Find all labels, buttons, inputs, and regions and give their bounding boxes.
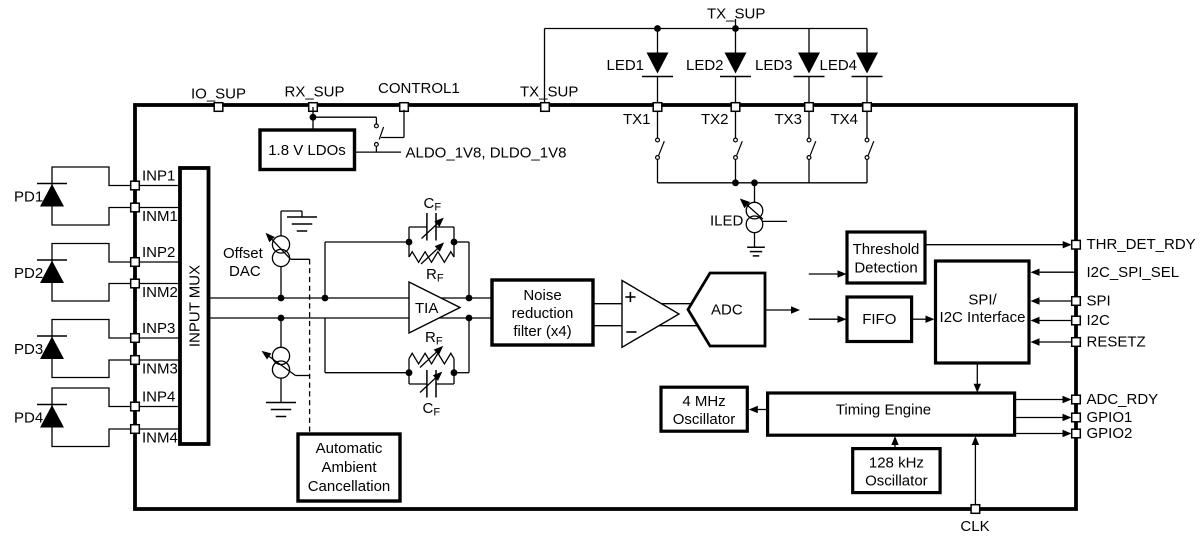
pin INM4 <box>131 425 140 434</box>
junction TIA out P <box>466 295 473 302</box>
svg-text:FIFO: FIFO <box>862 311 896 328</box>
svg-text:INP2: INP2 <box>142 244 175 261</box>
TX_SUP top rail wire <box>545 28 868 30</box>
wire timing to 4MHz osc <box>757 409 768 411</box>
svg-text:Ambient: Ambient <box>321 459 377 476</box>
wire timing to ADC_RDY <box>1015 399 1064 401</box>
wire INP1 to INPUT MUX <box>135 185 180 187</box>
wire INP4 to INPUT MUX <box>135 406 180 408</box>
pin TX4 <box>863 103 872 112</box>
pin TX2 <box>731 103 740 112</box>
wire upper feedback res branch <box>408 242 410 257</box>
svg-text:RESETZ: RESETZ <box>1087 334 1146 351</box>
wire upper feedback to TIA out <box>454 241 469 243</box>
svg-text:TX3: TX3 <box>774 111 802 128</box>
ground (offset DAC upper) <box>287 216 317 218</box>
svg-text:TX4: TX4 <box>830 111 858 128</box>
wire RX_SUP to LDO <box>312 107 314 130</box>
svg-text:1.8 V LDOs: 1.8 V LDOs <box>268 142 346 159</box>
pin INP2 <box>131 258 140 267</box>
switch S4 (LED4 driver) <box>865 138 869 142</box>
LED4 diode <box>856 53 878 74</box>
current source offset DAC upper <box>272 236 289 253</box>
LED3 diode <box>798 53 820 74</box>
svg-text:PD1: PD1 <box>14 189 43 206</box>
svg-text:I2C Interface: I2C Interface <box>940 309 1026 326</box>
svg-text:CONTROL1: CONTROL1 <box>378 80 460 97</box>
svg-text:LED4: LED4 <box>820 57 858 74</box>
svg-text:PD3: PD3 <box>14 341 43 358</box>
pin RX_SUP <box>309 103 318 112</box>
svg-text:INP4: INP4 <box>142 389 175 406</box>
pin I2C <box>1072 316 1081 325</box>
ground (ILED) <box>747 246 765 248</box>
pin ADC_RDY <box>1072 395 1081 404</box>
current source offset DAC lower <box>272 347 289 364</box>
svg-text:TX_SUP: TX_SUP <box>707 6 765 23</box>
svg-text:LED2: LED2 <box>686 57 724 74</box>
photodiode PD4 loop wire <box>52 388 135 447</box>
wire LED2 to TX2 pin <box>735 77 737 104</box>
chip boundary (AFE outline) <box>135 105 1076 509</box>
wire offset DAC lower to ground <box>280 378 282 402</box>
switch S2 (LED2 driver) <box>734 138 738 142</box>
svg-text:INM2: INM2 <box>142 284 178 301</box>
junction lower feedback left <box>406 369 413 376</box>
junction offset DAC upper <box>278 295 285 302</box>
block 128 kHz oscillator <box>853 449 940 493</box>
wire lower feedback res branch <box>408 359 410 373</box>
svg-text:INP1: INP1 <box>142 168 175 185</box>
junction upper feedback left <box>406 239 413 246</box>
svg-text:Cancellation: Cancellation <box>308 478 391 495</box>
svg-text:PD4: PD4 <box>14 410 43 427</box>
pin INP1 <box>131 181 140 190</box>
pin GPIO2 <box>1072 429 1081 438</box>
svg-text:filter (x4): filter (x4) <box>513 323 571 340</box>
wire INM2 to INPUT MUX <box>135 283 180 285</box>
junction line P feedback tap <box>322 295 329 302</box>
capacitor CF lower variable arrow <box>420 374 440 393</box>
svg-text:SPI/: SPI/ <box>968 292 997 309</box>
svg-text:LED1: LED1 <box>607 57 645 74</box>
wire rail left drop to TX_SUP pin <box>544 29 546 104</box>
svg-text:PD2: PD2 <box>14 265 43 282</box>
wire INP2 to INPUT MUX <box>135 261 180 263</box>
svg-text:GPIO1: GPIO1 <box>1087 409 1133 426</box>
svg-text:TX1: TX1 <box>623 111 651 128</box>
svg-text:ILED: ILED <box>710 213 744 230</box>
svg-text:4 MHz: 4 MHz <box>682 393 725 410</box>
wire TX4 pin to switch <box>866 107 868 138</box>
wire rail to LED1 <box>657 29 659 54</box>
wire lower feedback to TIA out <box>454 372 469 374</box>
wire INM1 to INPUT MUX <box>135 207 180 209</box>
svg-text:ADC: ADC <box>711 302 743 319</box>
resistor RF upper variable arrow <box>421 245 442 264</box>
svg-text:INM3: INM3 <box>142 361 178 378</box>
wire I2C_SPI_SEL <box>1039 271 1077 273</box>
block noise reduction filter <box>492 280 593 345</box>
wire offset DAC lower from line M <box>280 318 282 347</box>
svg-text:LED3: LED3 <box>755 57 793 74</box>
resistor RF lower <box>409 353 454 364</box>
photodiode PD4 <box>37 404 67 406</box>
svg-text:INP3: INP3 <box>142 320 175 337</box>
wire signal line P <box>208 297 492 299</box>
current source ILED <box>746 202 763 219</box>
pin INM1 <box>131 203 140 212</box>
wire TX_SUP label drop <box>735 19 737 29</box>
wire signal line M <box>208 317 492 319</box>
photodiode PD2 loop wire <box>52 244 135 302</box>
svg-text:TX2: TX2 <box>701 111 729 128</box>
photodiode PD1 loop wire <box>52 167 135 225</box>
svg-text:RX_SUP: RX_SUP <box>285 84 345 101</box>
wire timing to GPIO1 <box>1015 417 1064 419</box>
svg-text:Detection: Detection <box>854 260 917 277</box>
wire offset DAC upper to ground <box>280 211 282 236</box>
pin INP4 <box>131 402 140 411</box>
svg-text:THR_DET_RDY: THR_DET_RDY <box>1087 236 1196 253</box>
pin RESETZ <box>1072 338 1081 347</box>
svg-text:128 kHz: 128 kHz <box>869 455 924 472</box>
junction common-TX2 <box>732 179 739 186</box>
svg-text:INM1: INM1 <box>142 208 178 225</box>
pin INM3 <box>131 356 140 365</box>
wire LED1 to TX1 pin <box>657 77 659 104</box>
pin THR_DET_RDY <box>1072 240 1081 249</box>
photodiode PD1 <box>37 183 67 185</box>
svg-text:I2C_SPI_SEL: I2C_SPI_SEL <box>1087 264 1180 281</box>
wire offset DAC lower control <box>296 375 310 377</box>
wire threshold to THR_DET_RDY <box>925 244 1064 246</box>
pin CLK <box>971 505 980 514</box>
wire LDO output <box>355 151 401 153</box>
junction rail-LED2 <box>732 25 739 32</box>
wire I2C <box>1039 320 1072 322</box>
svg-text:ALDO_1V8, DLDO_1V8: ALDO_1V8, DLDO_1V8 <box>406 145 567 162</box>
pin TX_SUP <box>541 103 550 112</box>
wire rail to LED3 <box>808 29 810 54</box>
svg-text:Noise: Noise <box>523 287 561 304</box>
block SPI/I2C interface <box>936 261 1030 363</box>
op-amp buffer <box>622 281 679 348</box>
block FIFO <box>847 297 912 342</box>
wire LED3 to TX3 pin <box>808 77 810 104</box>
wire 128kHz osc to timing <box>894 444 896 449</box>
LED2 diode <box>725 53 747 74</box>
svg-text:INM4: INM4 <box>142 430 178 447</box>
wire arrow into threshold detection <box>809 273 839 275</box>
wire ADC output arrow <box>765 309 792 311</box>
wire INM3 to INPUT MUX <box>135 359 180 361</box>
svg-text:Threshold: Threshold <box>853 241 920 258</box>
wire SPI/I2C to timing engine <box>976 363 978 385</box>
wire CONTROL1 to switch <box>403 110 405 138</box>
junction lower feedback right <box>451 369 458 376</box>
svg-text:Timing Engine: Timing Engine <box>836 402 931 419</box>
wire common rail to ILED source <box>754 183 756 203</box>
pin TX3 <box>805 103 814 112</box>
svg-text:reduction: reduction <box>512 305 574 322</box>
switch S3 (LED3 driver) <box>807 138 811 142</box>
wire RESETZ <box>1039 341 1072 343</box>
pin TX1 <box>653 103 662 112</box>
svg-text:ADC_RDY: ADC_RDY <box>1087 391 1159 408</box>
svg-text:Oscillator: Oscillator <box>673 411 736 428</box>
junction TIA out M <box>466 315 473 322</box>
LED1 diode <box>647 53 669 74</box>
svg-text:CLK: CLK <box>960 518 989 535</box>
ILED control stub wire <box>762 220 787 222</box>
block 1.8 V LDOs <box>260 130 355 170</box>
pin CONTROL1 <box>400 103 409 112</box>
wire TX3 pin to switch <box>808 107 810 138</box>
wire INP3 to INPUT MUX <box>135 337 180 339</box>
wire CLK to timing <box>974 444 976 507</box>
offset DAC upper variable arrow <box>268 235 291 259</box>
wire SPI <box>1039 300 1072 302</box>
wire line P to upper feedback <box>324 242 326 298</box>
junction offset DAC lower <box>278 315 285 322</box>
ground (offset DAC lower) <box>266 402 296 404</box>
svg-text:I2C: I2C <box>1087 312 1111 329</box>
offset DAC lower variable arrow <box>264 353 296 376</box>
pin IO_SUP <box>214 103 223 112</box>
wire offset DAC upper control <box>291 258 310 260</box>
wire upper feedback cap branch <box>408 227 410 242</box>
wire INM4 to INPUT MUX <box>135 428 180 430</box>
wire line M to lower feedback <box>324 318 326 373</box>
svg-text:INPUT MUX: INPUT MUX <box>187 265 204 347</box>
svg-text:TIA: TIA <box>415 300 438 317</box>
svg-text:Offset: Offset <box>223 245 264 262</box>
wire FIFO to SPI/I2C <box>912 318 927 320</box>
block 4 MHz oscillator <box>661 387 747 431</box>
wire rail to LED2 <box>735 29 737 54</box>
photodiode PD3 <box>37 335 67 337</box>
wire ILED to ground <box>754 233 756 248</box>
svg-text:DAC: DAC <box>229 263 261 280</box>
wire filter to amp - <box>593 325 700 327</box>
capacitor CF lower <box>426 370 428 398</box>
junction rail-LED1 <box>654 25 661 32</box>
wire rail to LED4 <box>866 29 868 54</box>
junction RX_SUP <box>310 114 317 121</box>
wire timing to GPIO2 <box>1015 433 1064 435</box>
wire offset DAC upper to line P <box>280 267 282 298</box>
svg-text:SPI: SPI <box>1087 293 1111 310</box>
svg-text:TX_SUP: TX_SUP <box>520 84 578 101</box>
capacitor CF upper <box>426 213 428 241</box>
junction common-ILED <box>751 179 758 186</box>
switch S1 (LED1 driver) <box>656 138 660 142</box>
switch supply select <box>375 124 379 128</box>
block timing engine <box>768 393 1015 435</box>
wire arrow into FIFO <box>809 318 839 320</box>
svg-text:Automatic: Automatic <box>316 440 383 457</box>
block INPUT MUX <box>180 168 209 444</box>
ADC block <box>688 273 765 346</box>
op-amp TIA <box>409 282 460 333</box>
photodiode PD2 <box>37 259 67 261</box>
minus marking <box>626 331 636 333</box>
svg-text:Oscillator: Oscillator <box>865 473 928 490</box>
wire LED4 to TX4 pin <box>866 77 868 104</box>
pin GPIO1 <box>1072 413 1081 422</box>
wire RX_SUP to supply switch <box>313 116 376 118</box>
resistor RF lower variable arrow <box>420 348 441 367</box>
capacitor CF upper variable arrow <box>422 220 442 239</box>
resistor RF upper <box>409 252 454 263</box>
svg-text:GPIO2: GPIO2 <box>1087 425 1133 442</box>
block automatic ambient cancellation <box>298 434 400 501</box>
junction upper feedback right <box>451 239 458 246</box>
pin SPI <box>1072 297 1081 306</box>
photodiode PD3 loop wire <box>52 320 135 378</box>
wire TX2 pin to switch <box>735 107 737 138</box>
pin INP3 <box>131 334 140 343</box>
block threshold detection <box>847 232 925 283</box>
plus marking <box>625 296 635 298</box>
wire switch common rail <box>658 182 868 184</box>
svg-text:IO_SUP: IO_SUP <box>191 86 246 103</box>
dashed wire ambient cancellation control <box>309 259 311 433</box>
wire lower feedback cap branch <box>408 373 410 384</box>
wire TX1 pin to switch <box>657 107 659 138</box>
wire filter to amp + <box>593 303 694 305</box>
ILED variable arrow <box>743 201 763 219</box>
pin INM2 <box>131 279 140 288</box>
